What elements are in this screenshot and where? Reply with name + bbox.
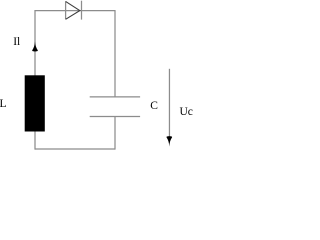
svg-text:Il: Il	[13, 36, 20, 48]
svg-text:Uc: Uc	[180, 106, 193, 118]
svg-text:C: C	[150, 100, 158, 112]
svg-text:L: L	[0, 98, 7, 110]
